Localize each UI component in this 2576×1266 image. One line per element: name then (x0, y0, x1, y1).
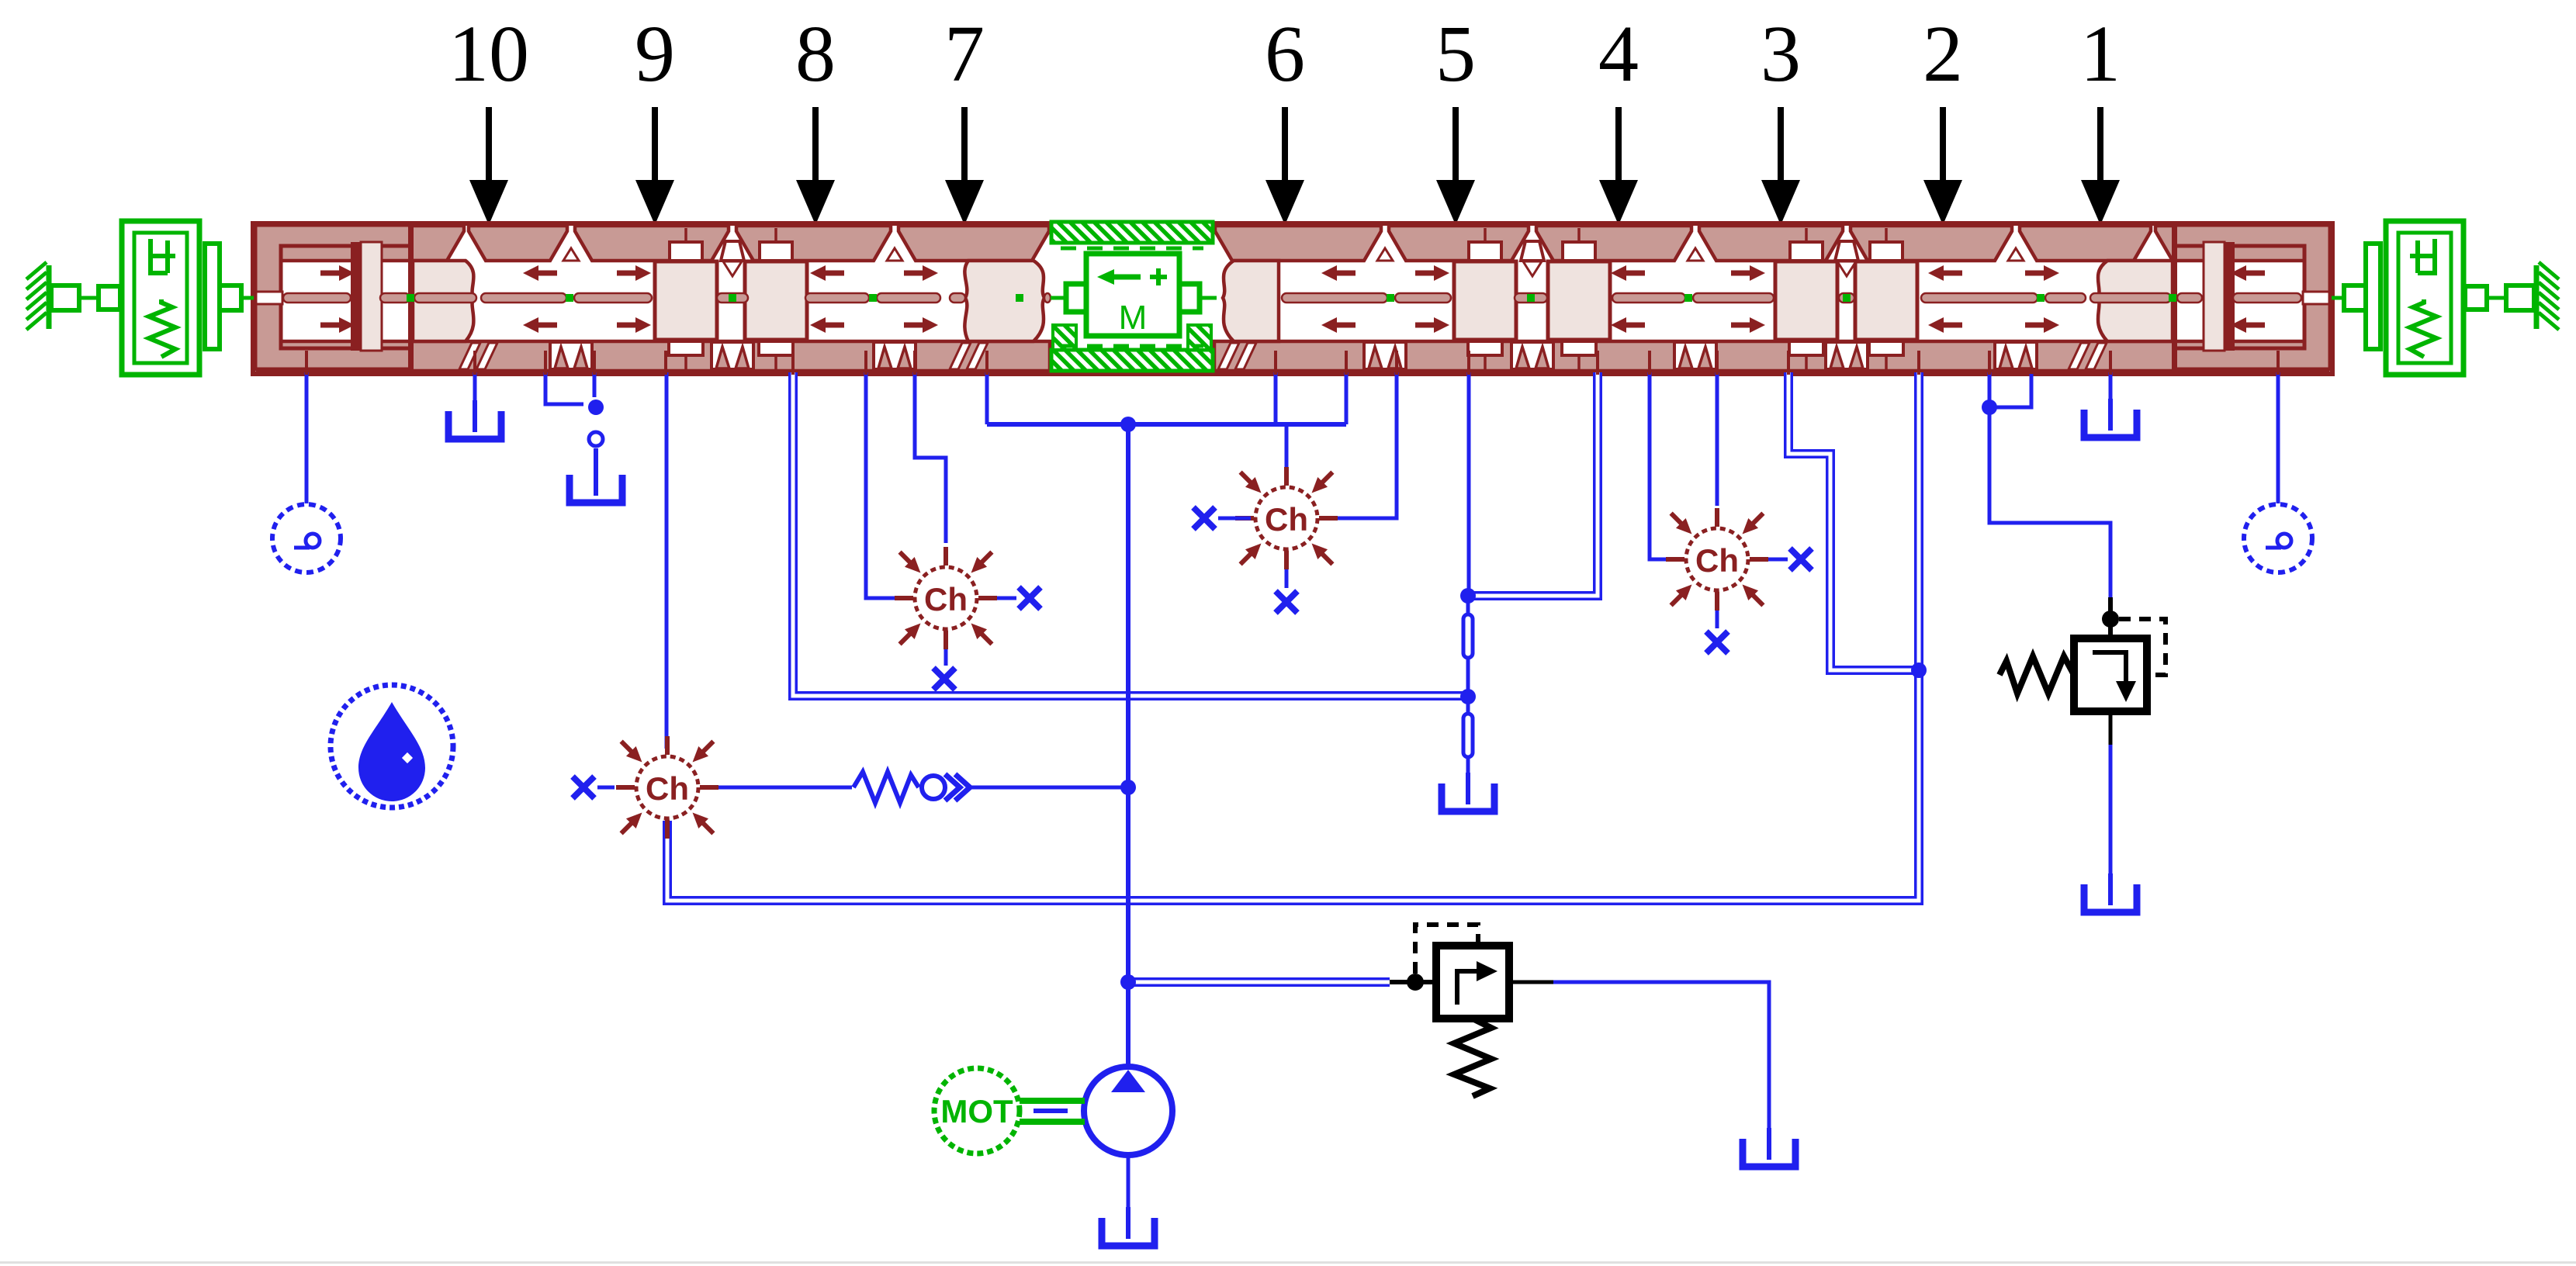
right piston (2225, 242, 2235, 351)
arrow to section 1 (2081, 107, 2120, 225)
flow arrow pair (1321, 265, 1356, 281)
wire Ch3 top arm (1285, 424, 1289, 484)
flow arrow pair (904, 265, 938, 281)
metering notch slab S1 (413, 261, 473, 341)
flow arrow pair (320, 265, 355, 281)
land stem bottom (1805, 355, 1808, 369)
Ch4 right plug (1768, 558, 1788, 562)
arrow to section 6 (1265, 107, 1304, 225)
bottom rail slash cut (2069, 343, 2090, 369)
svg-text:1: 1 (2080, 9, 2121, 99)
valve block body (253, 223, 2332, 374)
tank T1 (448, 400, 501, 439)
land pocket top (670, 242, 702, 261)
tank T6 (2084, 873, 2137, 912)
arrow to section 2 (1923, 107, 1962, 225)
relief valve RV1 arrow (2093, 652, 2126, 683)
chamber Ch1 (616, 736, 718, 839)
top rail vee (2008, 248, 2024, 261)
flow arrow pair (1731, 265, 1765, 281)
spool land 6 (1855, 261, 1917, 340)
tank gallery notch (1826, 342, 1868, 369)
tank gallery notch (1511, 342, 1553, 369)
junction (1120, 417, 1136, 432)
Ch3 left plug (1218, 517, 1251, 521)
land pocket top (1790, 242, 1823, 261)
land stem top (1885, 228, 1888, 243)
land stem top (1484, 228, 1487, 243)
wire to Ch4 top (1716, 372, 1719, 506)
tank gallery notch (874, 342, 916, 369)
land pocket bottom (1562, 341, 1596, 355)
junction (1460, 689, 1476, 704)
arrow to section 8 (796, 107, 835, 225)
junction (1120, 780, 1136, 795)
svg-text:5: 5 (1435, 9, 1476, 99)
metering notch slab S4 (2098, 261, 2173, 341)
land stem bottom (1484, 355, 1487, 369)
relief valve RV2 arrow (1457, 971, 1478, 1005)
port stubs (306, 351, 2278, 375)
arrow to section 4 (1599, 107, 1638, 225)
linear motor M (1086, 254, 1179, 336)
land stem top (1805, 228, 1808, 243)
wire Ch1 to check valve (701, 786, 852, 790)
motor housing top hatch (1051, 222, 1213, 243)
relief valve RV1 drain (2109, 711, 2113, 745)
relief valve RV1 spring (2000, 656, 2074, 694)
wire tank port1 (2109, 372, 2113, 414)
tank gallery notch (550, 342, 592, 369)
wire restrictor mid (1466, 596, 1470, 783)
junction (1460, 588, 1476, 604)
arrow to section 10 (469, 107, 508, 225)
relief valve RV1 body (2108, 597, 2113, 638)
wire pump suction (1127, 1154, 1130, 1215)
spool gap cut (721, 241, 744, 261)
svg-text:4: 4 (1598, 9, 1639, 99)
land pocket bottom (759, 341, 793, 355)
svg-text:M: M (1119, 299, 1148, 337)
tank T2 (570, 464, 622, 503)
relief valve RV2 spring (1454, 1019, 1491, 1096)
flow arrow pair (810, 265, 844, 281)
tank gallery notch (1995, 342, 2037, 369)
flow arrow pair (617, 265, 651, 281)
wire port4 double (1474, 372, 1598, 596)
valve block top rail (258, 226, 2328, 261)
tank T4 (1442, 773, 1494, 811)
bottom rail slash cut (950, 343, 971, 369)
check valve ball (922, 776, 945, 799)
tank T7 (2084, 399, 2137, 438)
land stem top (684, 228, 687, 243)
flow arrow pair (2231, 265, 2265, 281)
left chamber wall (408, 227, 414, 370)
metering notch slab S3 (1223, 261, 1279, 341)
wire Ch3 right arm riser (1321, 372, 1397, 518)
arrow to section 7 (945, 107, 984, 225)
wire port7 drop (985, 372, 989, 424)
junction (1982, 400, 1997, 415)
wire main trunk (1126, 424, 1130, 1066)
land pocket top (1469, 242, 1501, 261)
land pocket top (1563, 242, 1595, 261)
land stem bottom (684, 355, 687, 369)
wire drain elbow left (545, 372, 583, 404)
relief valve RV2 body (1390, 980, 1436, 984)
relief valve RV2 pilot dashed (1415, 925, 1478, 974)
check valve spring (853, 772, 919, 803)
pressure gauge right (2244, 504, 2312, 572)
arrow to section 9 (635, 107, 674, 225)
svg-text:2: 2 (1923, 9, 1963, 99)
arrow to section 5 (1436, 107, 1475, 225)
Ch2 bottom plug (944, 649, 948, 666)
valve block bottom rail (258, 341, 2328, 371)
left cylinder rod slot (256, 292, 282, 304)
Ch2 right plug (997, 597, 1016, 600)
wire gauge left (305, 372, 309, 503)
wire pump to relief double (1133, 977, 1390, 987)
svg-text:7: 7 (944, 9, 985, 99)
spool land 5 (1775, 261, 1837, 340)
rod couplers (407, 294, 2176, 302)
junction (588, 400, 604, 415)
junction (1911, 662, 1927, 678)
right mass-spring-damper to ground (2332, 221, 2559, 375)
left mass-spring-damper to ground (26, 221, 254, 375)
land stem top (1577, 228, 1581, 243)
wire plug stub left (593, 372, 597, 397)
spool land 3 (1454, 261, 1516, 340)
flow arrow pair (1928, 265, 1962, 281)
top rail vee (563, 248, 579, 261)
arrow to section 3 (1761, 107, 1800, 225)
land pocket bottom (669, 341, 703, 355)
land pocket bottom (1789, 341, 1823, 355)
chamber Ch2 (895, 547, 997, 649)
wire to chamber Ch1 (665, 372, 669, 749)
shaft (1020, 1098, 1085, 1104)
wire to Ch2 top (915, 372, 946, 543)
flow arrow pair (523, 265, 557, 281)
wire gauge right (2277, 372, 2280, 503)
wire chamber1 return double (667, 673, 1919, 901)
wire relief2 out (1552, 982, 1769, 1136)
svg-text:3: 3 (1761, 9, 1801, 99)
tank T5 (1743, 1128, 1795, 1167)
right chamber wall (2172, 227, 2177, 370)
pump (1084, 1067, 1172, 1155)
plug circle left (589, 432, 603, 446)
spool gap cut (1835, 241, 1858, 261)
motor guide dashed (1061, 247, 1203, 251)
relief valve RV1 pilot dashed (2119, 619, 2166, 675)
wire port2a double (1788, 372, 1913, 670)
tank gallery notch (712, 342, 753, 369)
wire to Ch4 left (1650, 372, 1682, 559)
tank T3 (1102, 1207, 1155, 1246)
check valve chevrons (945, 774, 970, 801)
spool land 4 (1548, 261, 1610, 340)
land pocket top (1870, 242, 1903, 261)
junction (1120, 974, 1136, 990)
wire plug stem left (594, 448, 598, 487)
flow arrow pair (1415, 265, 1449, 281)
land pocket bottom (1869, 341, 1903, 355)
hydraulic fluid properties icon (331, 685, 453, 808)
motor housing bottom hatch (1051, 350, 1213, 371)
svg-text:6: 6 (1265, 9, 1305, 99)
land pocket top (760, 242, 792, 261)
spool rod (283, 293, 2301, 303)
chamber Ch3 (1235, 467, 1338, 569)
wire to Ch2 left (866, 372, 896, 598)
top rail vee (1688, 248, 1703, 261)
right cylinder rod slot (2303, 292, 2329, 304)
land stem bottom (1885, 355, 1888, 369)
svg-text:MOT: MOT (940, 1093, 1013, 1129)
wire supply gallery (987, 422, 1346, 427)
wire restrictor feed (1467, 372, 1471, 596)
orifice restrictor lower (1463, 714, 1473, 757)
wire check valve to trunk (970, 786, 1128, 790)
spool land 1 (655, 261, 717, 340)
wire pilot line port10 double (793, 372, 1465, 696)
flow arrow pair (1611, 265, 1645, 281)
Ch3 bottom plug (1285, 569, 1289, 588)
wire port2b double (1914, 372, 1923, 670)
Ch1 left plug (597, 786, 615, 790)
top rail vee (1377, 248, 1393, 261)
orifice restrictor upper (1463, 614, 1473, 658)
tank gallery notch (1364, 342, 1406, 369)
right cylinder cap (2174, 225, 2330, 369)
wire motor port drop b (1345, 372, 1349, 424)
bottom rail slash cut (459, 343, 480, 369)
pressure gauge left (272, 504, 341, 572)
Ch4 bottom plug (1716, 611, 1719, 628)
bottom rail slash cut (1218, 343, 1239, 369)
chamber Ch4 (1666, 508, 1768, 611)
top rail vee (887, 248, 902, 261)
land stem top (774, 228, 777, 243)
tank gallery notch (1674, 342, 1716, 369)
metering notch slab S2 (964, 261, 1044, 341)
electric motor MOT (934, 1068, 1020, 1154)
wire tank port10 (473, 372, 477, 411)
spool gap cut (1521, 241, 1544, 261)
land stem bottom (1577, 355, 1581, 369)
wire plug stub right (1988, 372, 1992, 404)
left piston (351, 242, 361, 351)
wire plug elbow right (1989, 374, 2031, 407)
left cylinder cap (255, 225, 411, 369)
svg-text:9: 9 (635, 9, 675, 99)
relief valve RV2 out stub (1509, 981, 1553, 984)
wire motor port drop a (1274, 372, 1278, 424)
land pocket bottom (1468, 341, 1502, 355)
wire relief1 out (2109, 743, 2113, 881)
page footer line (0, 1261, 2576, 1264)
spool land 2 (745, 261, 807, 340)
svg-text:8: 8 (795, 9, 836, 99)
flow arrow pair (2025, 265, 2059, 281)
svg-text:10: 10 (448, 9, 529, 99)
land stem bottom (774, 355, 777, 369)
wire to relief1 (1989, 407, 2110, 613)
